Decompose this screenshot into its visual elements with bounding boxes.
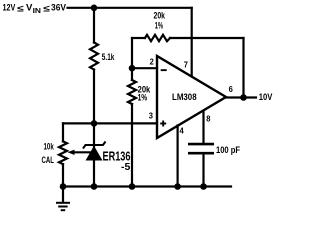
op-amp minus sign bbox=[161, 69, 167, 71]
wire pot bottom to ground rail bbox=[62, 164, 64, 186]
resistor 20k 1% to ground, upper lead bbox=[131, 68, 133, 80]
potentiometer wiper arrow bbox=[68, 150, 75, 155]
wire top rail from VIN label to V+ corner bbox=[68, 7, 192, 9]
op-amp U1 LM308 triangle bbox=[157, 56, 226, 138]
svg-text:LM308: LM308 bbox=[172, 92, 197, 102]
junction node ground-pin4 bbox=[174, 183, 181, 190]
wire 5.1k bottom to bus node bbox=[93, 70, 95, 124]
wire pin 4 drop bbox=[177, 126, 179, 187]
resistor 5.1k bbox=[90, 43, 98, 70]
wire pin 3 bus bbox=[63, 122, 157, 124]
junction node output bbox=[240, 94, 247, 101]
label 10k CAL bbox=[42, 142, 55, 166]
zener diode ER136 lower lead bbox=[93, 160, 95, 187]
svg-text:36V: 36V bbox=[51, 3, 66, 13]
ground bars bbox=[56, 203, 70, 210]
wire pin 8 drop to capacitor bbox=[202, 112, 204, 144]
wire 20k bottom to ground rail bbox=[131, 104, 133, 187]
svg-text:-5: -5 bbox=[121, 161, 130, 173]
label input resistor 20k 1% bbox=[138, 85, 152, 103]
junction node ground-20k bbox=[129, 183, 136, 190]
svg-text:10V: 10V bbox=[259, 92, 273, 102]
wire inverting column top (feedback corner down to pin2 node) bbox=[131, 38, 133, 68]
wire ground rail bbox=[63, 185, 231, 187]
svg-text:≤: ≤ bbox=[43, 4, 50, 14]
wire feedback drop to output node bbox=[242, 38, 244, 98]
wire output pin 6 to 10V bbox=[226, 96, 256, 98]
junction node top rail bbox=[91, 5, 98, 12]
zener diode ER136 symbol bbox=[83, 142, 106, 161]
wire feedback right segment to corner bbox=[170, 37, 244, 39]
svg-text:20k: 20k bbox=[154, 10, 166, 20]
svg-text:4: 4 bbox=[180, 126, 184, 136]
svg-text:12V: 12V bbox=[3, 3, 16, 13]
svg-text:1%: 1% bbox=[138, 93, 148, 103]
junction node ground-pot bbox=[60, 183, 67, 190]
svg-text:5.1k: 5.1k bbox=[102, 52, 115, 62]
svg-text:2: 2 bbox=[150, 56, 154, 66]
label 12V <= VIN <= 36V bbox=[3, 3, 67, 16]
svg-text:≤: ≤ bbox=[17, 4, 24, 14]
wire pot branch upper bbox=[62, 123, 64, 141]
junction node ground-cap bbox=[200, 183, 207, 190]
wire pin 2 stub bbox=[132, 67, 157, 69]
potentiometer 10k CAL bbox=[59, 141, 67, 164]
junction node pin 2 bbox=[129, 65, 136, 72]
ground stub bbox=[62, 187, 64, 203]
svg-text:1%: 1% bbox=[155, 20, 163, 30]
svg-text:V: V bbox=[26, 3, 32, 13]
zener diode ER136 upper lead bbox=[93, 123, 95, 147]
resistor 20k 1% vertical zigzag bbox=[128, 80, 136, 104]
wire feedback left segment bbox=[132, 37, 145, 39]
svg-text:IN: IN bbox=[33, 8, 41, 15]
wire left rail top segment bbox=[93, 8, 95, 43]
svg-text:6: 6 bbox=[229, 84, 233, 94]
svg-text:3: 3 bbox=[149, 110, 153, 120]
junction node ground-zener bbox=[91, 183, 98, 190]
svg-text:100 pF: 100 pF bbox=[216, 145, 240, 155]
wire V+ drop to pin 7 bbox=[191, 8, 193, 77]
svg-text:10k: 10k bbox=[44, 142, 55, 152]
wire capacitor bottom lead bbox=[202, 155, 204, 187]
svg-text:8: 8 bbox=[206, 113, 210, 123]
wire pot wiper tail bbox=[73, 151, 94, 153]
svg-text:CAL: CAL bbox=[42, 155, 55, 165]
junction node reference bus bbox=[91, 120, 98, 127]
op-amp plus sign bbox=[160, 121, 166, 127]
label feedback resistor 20k 1% bbox=[154, 10, 166, 30]
capacitor 100 pF plates bbox=[188, 144, 214, 153]
svg-text:7: 7 bbox=[184, 59, 188, 69]
resistor 20k 1% feedback zigzag bbox=[145, 35, 170, 41]
